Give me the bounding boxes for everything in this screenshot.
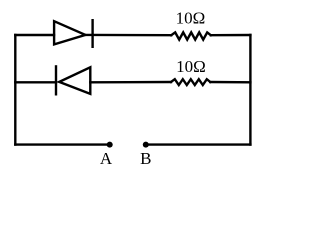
wire: diode D1 to resistor R1: [85, 34, 171, 37]
wire: top branch from left corner to diode D1 anode: [15, 34, 54, 36]
wire: bottom-left segment to terminal A: [15, 143, 109, 145]
diode D2 (pointing left) triangle: [59, 67, 90, 94]
diode D1 cathode bar: [91, 20, 93, 47]
terminal B node dot: [143, 142, 149, 148]
svg-text:10Ω: 10Ω: [176, 9, 206, 28]
diode D2 cathode bar: [55, 66, 57, 94]
wire: terminal B to bottom-right corner: [146, 143, 251, 145]
svg-text:B: B: [140, 149, 151, 168]
wire: right vertical side: [249, 35, 251, 145]
svg-text:A: A: [100, 149, 113, 168]
wire: middle branch from left side to diode D2 cathode: [15, 81, 56, 83]
resistor R2 zigzag: [171, 79, 210, 85]
wire: resistor R1 to top-right corner: [211, 34, 251, 37]
wire: left vertical side: [14, 35, 16, 145]
resistor R1 zigzag: [171, 32, 211, 39]
diode D1 (pointing right) triangle: [54, 21, 85, 44]
wire: resistor R2 to right side: [210, 81, 250, 84]
terminal A node dot: [107, 142, 113, 148]
svg-text:10Ω: 10Ω: [176, 57, 206, 76]
wire: diode D2 to resistor R2: [90, 81, 171, 84]
